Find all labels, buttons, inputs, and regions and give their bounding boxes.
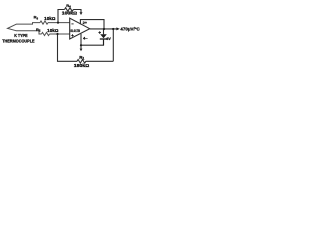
svg-text:100kΩ: 100kΩ [62, 11, 77, 16]
svg-text:4−: 4− [83, 37, 87, 41]
svg-text:10kΩ: 10kΩ [44, 16, 55, 21]
resistor R2 [42, 32, 50, 35]
wire feedback right [74, 10, 82, 13]
V+ pin stub [79, 20, 81, 25]
wire feedback left [58, 10, 65, 23]
arrow wiper R1 [80, 49, 83, 52]
wire R2 to op-amp [50, 33, 70, 35]
svg-text:10kΩ: 10kΩ [47, 28, 58, 33]
arrow output [116, 27, 119, 30]
wire top lead [16, 23, 40, 25]
svg-text:R3: R3 [34, 15, 39, 21]
svg-text:2+: 2+ [83, 21, 87, 25]
wire bottom rail left [58, 34, 78, 61]
wire V- to zener anode [81, 39, 104, 45]
resistor R4 [65, 8, 74, 12]
node junction V-/zener [80, 44, 82, 46]
wire V- wiper [80, 45, 82, 49]
wire R3 to op-amp [48, 22, 70, 24]
wire output [90, 28, 117, 30]
node junction output/zener [103, 28, 105, 30]
minus marker inverting input [71, 23, 73, 25]
svg-text:R2: R2 [36, 27, 41, 33]
svg-text:R4: R4 [66, 3, 71, 9]
wire V+ rail [80, 20, 104, 29]
wire bottom rail right [86, 60, 113, 62]
svg-text:470μV/°C: 470μV/°C [120, 27, 140, 32]
svg-text:R1: R1 [79, 55, 84, 61]
node junction R2/rail [56, 33, 58, 35]
wire zener top [103, 29, 105, 34]
op-amp U1 [70, 18, 90, 39]
V- pin stub [80, 34, 82, 45]
svg-text:THERMOCOUPLE: THERMOCOUPLE [2, 38, 34, 43]
resistor R3 [40, 21, 48, 24]
svg-text:6V: 6V [106, 37, 111, 41]
wire output down right [112, 29, 114, 61]
plus marker non-inverting input [71, 34, 73, 36]
thermocouple junction [8, 24, 17, 31]
node junction output/right [112, 28, 114, 30]
wire bottom lead [16, 31, 42, 34]
plus marker zener [98, 31, 101, 34]
svg-text:SL017B: SL017B [70, 29, 80, 33]
zener diode D1 [100, 34, 107, 38]
node junction R4/R3 [57, 22, 59, 24]
svg-text:180kΩ: 180kΩ [74, 63, 89, 68]
arrow feedback to V+ rail [80, 12, 83, 15]
resistor R1 [77, 60, 86, 64]
